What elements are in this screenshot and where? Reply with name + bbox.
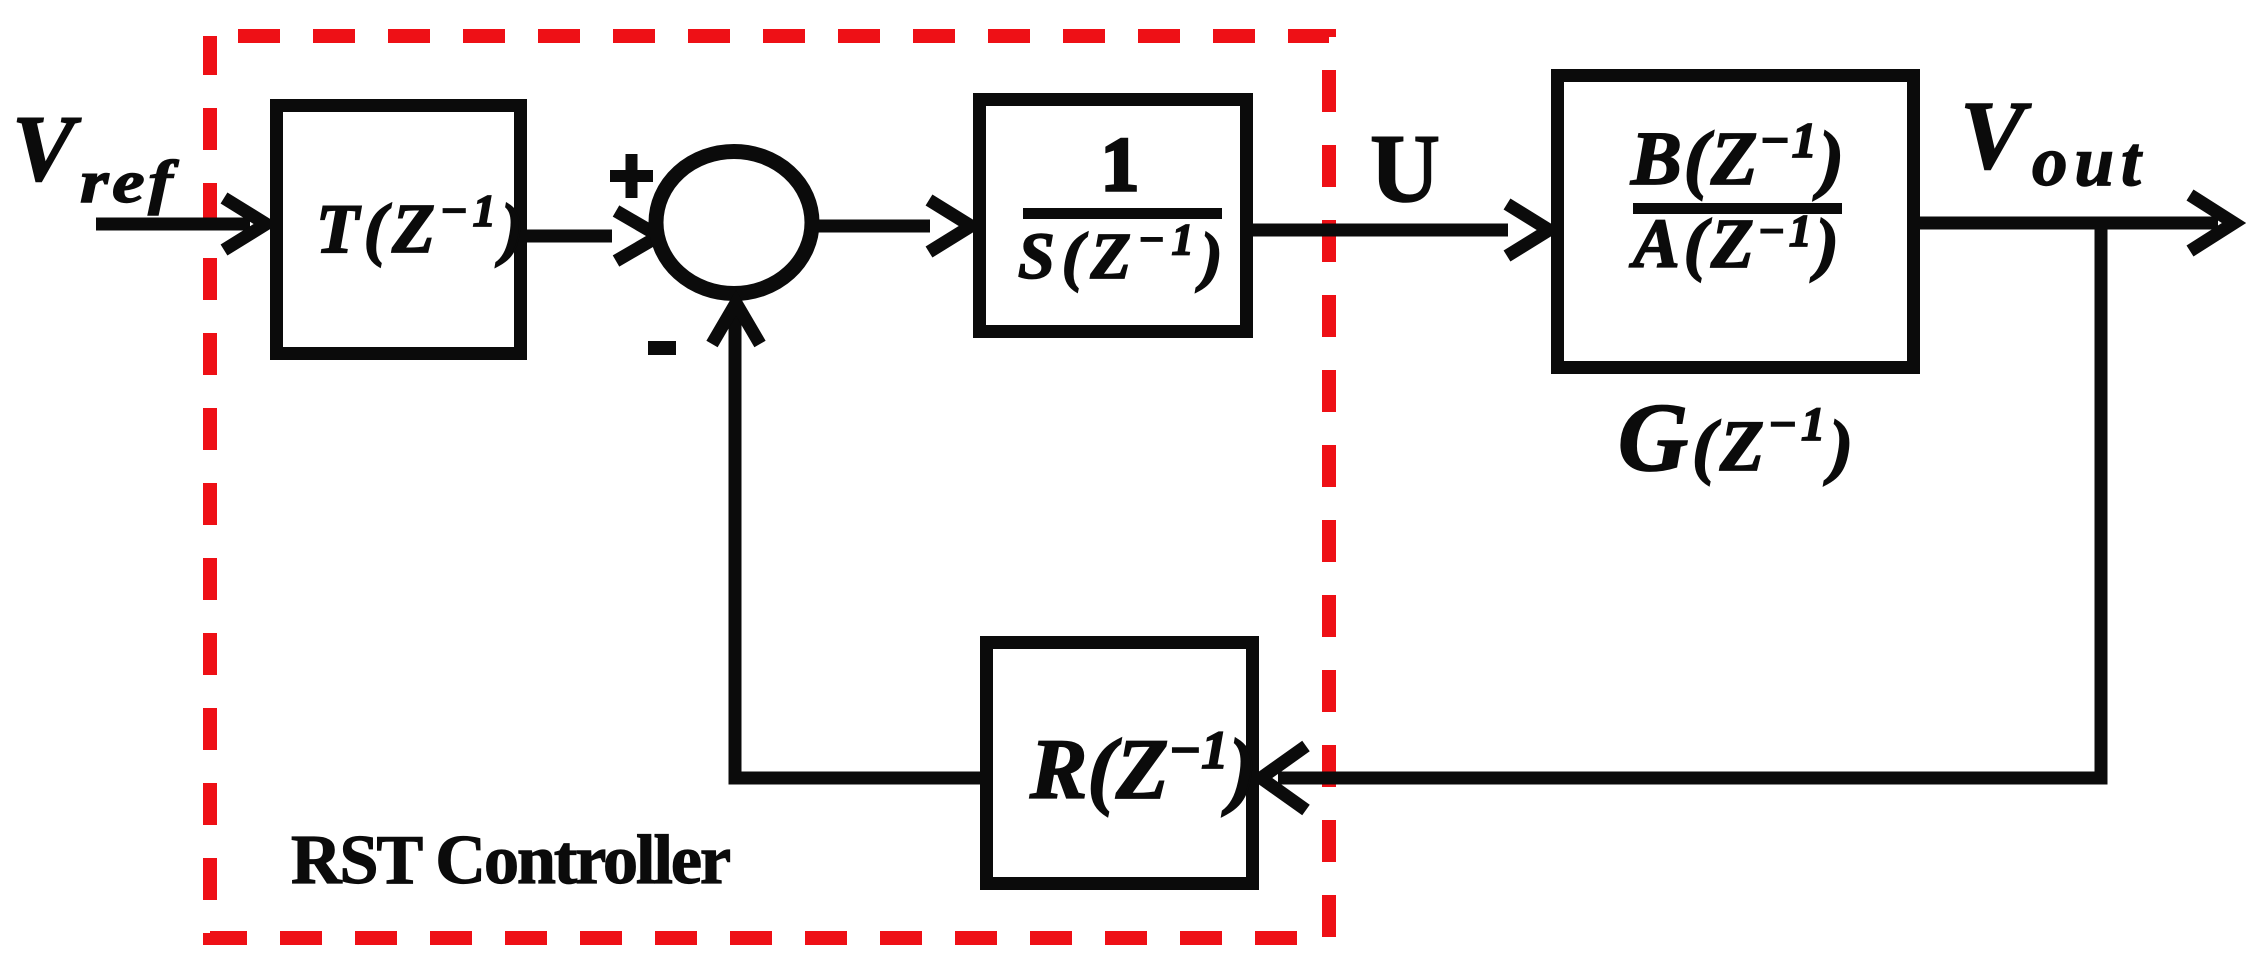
summing junction xyxy=(656,152,812,294)
wire: R block output to summing junction (negative input) xyxy=(712,303,980,778)
wire: Vref input arrow xyxy=(96,198,266,250)
node Vout label xyxy=(1960,82,2148,201)
value label 1 over S(Z^-1) xyxy=(1018,123,1230,293)
wire: U from 1/S block to plant xyxy=(1253,204,1549,256)
plus sign at summing junction xyxy=(610,154,653,198)
svg-text:out: out xyxy=(2032,123,2148,201)
block T(Z^-1) xyxy=(277,106,521,354)
svg-text:V: V xyxy=(12,97,82,201)
svg-text:RST Controller: RST Controller xyxy=(291,822,730,899)
svg-text:1: 1 xyxy=(1101,123,1139,207)
block B(Z^-1)/A(Z^-1) xyxy=(1558,76,1914,368)
svg-text:V: V xyxy=(1960,82,2032,189)
block R(Z^-1) xyxy=(987,643,1253,884)
svg-text:U: U xyxy=(1370,115,1440,222)
wire: summing junction to 1/S block xyxy=(812,200,971,252)
block 1/S(Z^-1) xyxy=(980,100,1247,332)
wire: Vout output arrow xyxy=(1920,195,2234,251)
value label B(Z^-1) over A(Z^-1) xyxy=(1629,112,1846,283)
svg-text:ref: ref xyxy=(80,149,179,215)
node Vref label xyxy=(12,97,179,215)
minus sign at summing junction xyxy=(648,341,676,355)
wire: feedback from output junction down and left to R block xyxy=(1261,223,2101,810)
dashed boundary: RST Controller region xyxy=(210,36,1329,938)
wire: T output to summing junction xyxy=(527,211,659,261)
